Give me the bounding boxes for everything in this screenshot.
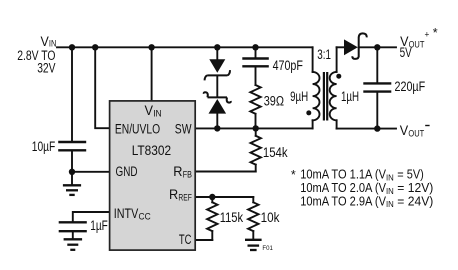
wire secondary top to diode xyxy=(337,46,344,48)
svg-text:REF: REF xyxy=(178,192,192,203)
wire C1 top xyxy=(71,47,73,141)
svg-text:5V: 5V xyxy=(400,45,413,61)
wire RREF xyxy=(195,196,253,198)
wire snubber mid xyxy=(255,67,257,85)
wire RFB xyxy=(195,171,256,173)
svg-text:IN: IN xyxy=(386,199,394,209)
svg-text:10mA TO 2.9A (V: 10mA TO 2.9A (V xyxy=(300,193,386,208)
svg-text:CC: CC xyxy=(139,211,151,222)
wire snubber bottom xyxy=(255,114,257,129)
svg-text:V: V xyxy=(400,123,409,139)
wire C4 bottom xyxy=(376,93,378,129)
ground G1 under C1 xyxy=(63,185,81,195)
diode D3 output schottky xyxy=(344,33,367,59)
svg-text:+: + xyxy=(425,29,430,40)
resistor R3 115k xyxy=(207,202,217,231)
wire VIN pin stub xyxy=(151,47,153,101)
node SW/clamp xyxy=(214,125,220,131)
transformer T1 core xyxy=(324,72,327,121)
svg-text:IN: IN xyxy=(153,107,162,118)
resistor R1 154k stub top xyxy=(255,128,257,135)
svg-text:9µH: 9µH xyxy=(290,89,308,105)
wire clamp middle xyxy=(216,76,218,96)
svg-text:INTV: INTV xyxy=(114,206,139,222)
node VIN/C1 xyxy=(69,44,75,50)
transformer secondary phase dot xyxy=(336,74,341,79)
svg-text:*: * xyxy=(433,26,438,40)
wire SW rail xyxy=(195,127,312,129)
svg-text:1µF: 1µF xyxy=(90,218,108,234)
transformer T1 primary lead bottom xyxy=(312,120,314,128)
svg-text:32V: 32V xyxy=(37,61,56,77)
node VOUT+/C4 xyxy=(374,44,380,50)
wire C1 bottom xyxy=(71,151,73,171)
svg-text:115k: 115k xyxy=(220,210,244,226)
capacitor C4 220uF plates xyxy=(363,83,391,91)
IC U1 LT8302 body xyxy=(110,101,196,250)
node VIN/pin xyxy=(148,44,154,50)
wire VOUT- rail xyxy=(337,128,396,130)
svg-text:10k: 10k xyxy=(261,210,281,226)
node RREF/115k xyxy=(209,194,215,200)
IC U1 pin labels xyxy=(114,103,192,248)
capacitor C3 1uF plates xyxy=(59,222,87,231)
transformer primary phase dot xyxy=(306,110,311,115)
label VIN node xyxy=(17,34,56,77)
svg-text:OUT: OUT xyxy=(408,128,424,139)
svg-text:IN: IN xyxy=(386,173,394,183)
svg-text:TC: TC xyxy=(179,232,192,248)
svg-text:V: V xyxy=(145,103,154,119)
transformer T1 primary lead top xyxy=(312,47,314,72)
wire clamp bottom xyxy=(216,114,218,129)
transformer T1 primary winding 9uH xyxy=(313,72,320,120)
node VIN/clamp xyxy=(214,44,220,50)
wire ground stub G1 xyxy=(71,172,73,184)
svg-text:470pF: 470pF xyxy=(273,58,304,74)
label VOUT+ xyxy=(400,26,438,61)
wire INTVCC xyxy=(73,212,110,221)
note asterisk footnote xyxy=(291,167,433,209)
wire C3 to ground xyxy=(72,232,74,238)
wire C4 top xyxy=(376,47,378,82)
svg-text:*: * xyxy=(291,167,296,182)
wire EN/UVLO xyxy=(95,47,109,128)
node VIN/EN xyxy=(92,44,98,50)
resistor R1 154k stub bottom xyxy=(255,165,257,172)
ground G2 under C3 xyxy=(64,239,83,250)
resistor R1 154k xyxy=(251,136,261,165)
svg-text:F01: F01 xyxy=(262,245,273,252)
transformer T1 secondary winding 1uH xyxy=(330,72,337,120)
diode D1 zener clamp top xyxy=(205,59,230,80)
svg-text:IN: IN xyxy=(386,186,394,196)
svg-text:39Ω: 39Ω xyxy=(264,93,284,109)
diode D2 zener clamp bottom xyxy=(204,92,231,113)
wire clamp top xyxy=(216,47,218,59)
resistor R4 10k stub bottom xyxy=(252,231,254,239)
svg-text:10µF: 10µF xyxy=(32,139,56,155)
capacitor C2 470pF plates xyxy=(242,59,268,67)
svg-text:154k: 154k xyxy=(263,145,288,161)
capacitor C1 10uF plates xyxy=(58,142,86,150)
svg-text:R: R xyxy=(169,187,178,203)
svg-text:3:1: 3:1 xyxy=(317,47,331,63)
svg-text:= 24V): = 24V) xyxy=(397,193,433,208)
resistor R4 10k stub top xyxy=(252,197,254,202)
node VOUT-/C4 xyxy=(374,125,380,131)
svg-text:220µF: 220µF xyxy=(395,79,426,95)
label VOUT- xyxy=(400,123,430,139)
svg-text:FB: FB xyxy=(183,169,192,180)
wire snubber top xyxy=(255,47,257,57)
wire TC xyxy=(195,239,212,241)
transformer T1 secondary lead bottom xyxy=(336,120,338,128)
resistor R3 115k stub bottom xyxy=(211,231,213,240)
node SW/154k xyxy=(253,125,259,131)
svg-text:GND: GND xyxy=(116,164,138,180)
svg-text:R: R xyxy=(173,164,182,180)
ground G3 under R4 10k xyxy=(245,240,262,250)
wire VIN top rail xyxy=(57,46,313,48)
node VIN/snubber xyxy=(252,44,258,50)
resistor R3 115k stub top xyxy=(211,197,213,202)
wire GND pin xyxy=(72,171,110,173)
svg-text:SW: SW xyxy=(175,122,192,138)
svg-text:EN/UVLO: EN/UVLO xyxy=(115,122,160,138)
resistor R4 10k xyxy=(248,202,258,231)
transformer T1 secondary lead top xyxy=(336,47,338,72)
node GND/C1 xyxy=(69,169,75,175)
resistor R2 39ohm xyxy=(250,85,260,114)
svg-text:LT8302: LT8302 xyxy=(132,143,171,159)
wire diode to VOUT+ xyxy=(359,46,396,48)
svg-text:1µH: 1µH xyxy=(341,89,359,105)
